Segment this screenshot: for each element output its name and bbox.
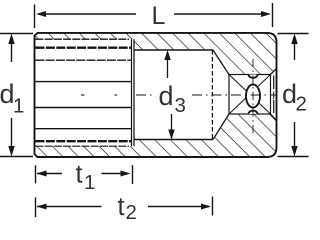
svg-text:t: t	[118, 193, 125, 221]
hex end double wall line	[131, 39, 133, 146]
body outline	[35, 33, 277, 157]
axis centerline	[81, 94, 85, 96]
d1 down arrow	[11, 118, 13, 148]
t2 left arrowhead	[37, 204, 47, 210]
square diagonal 2	[229, 75, 271, 115]
d2 down arrow	[294, 122, 296, 148]
chamfer ring edge lower	[273, 100, 275, 113]
square drive recess outline	[229, 75, 271, 115]
svg-text:3: 3	[175, 94, 186, 117]
pin hole top arc	[249, 75, 258, 78]
d1 up arrow	[11, 42, 13, 62]
svg-text:1: 1	[13, 95, 24, 118]
d2 top extension line	[278, 33, 309, 35]
vertical centerline through pin hole	[252, 59, 254, 133]
t2 dimension line	[37, 206, 102, 208]
hex bore bottom line (stippled)	[36, 145, 130, 147]
L left extension bar	[34, 5, 36, 29]
svg-text:t: t	[76, 161, 83, 189]
knurl stipple line heavy bottom	[36, 140, 132, 142]
knurl stipple line top	[36, 59, 132, 61]
svg-text:2: 2	[296, 93, 307, 116]
chamfer ring centerline dash	[273, 92, 275, 100]
hex facet line	[36, 81, 132, 83]
chamfer ring edge upper	[273, 76, 275, 90]
knurl stipple line heavy top	[36, 47, 132, 49]
svg-text:d: d	[159, 81, 174, 111]
cone transition bottom	[213, 114, 229, 140]
dimension L line	[46, 13, 136, 15]
right face chamfer diag bottom	[271, 114, 277, 121]
d2 up arrow	[294, 42, 296, 60]
L right arrowhead	[261, 11, 271, 17]
hatched top wall section	[36, 33, 277, 75]
cone transition top	[213, 50, 229, 75]
hex facet line	[36, 128, 132, 130]
L left arrowhead	[36, 11, 46, 17]
t1 right arrowhead	[121, 171, 131, 177]
d2 bottom extension line	[278, 156, 309, 158]
d1 top extension line	[0, 33, 33, 35]
svg-text:1: 1	[84, 171, 95, 194]
cavity d3 bottom edge	[134, 139, 213, 141]
t1 left extension bar	[35, 165, 37, 183]
t2 right extension bar	[212, 197, 214, 216]
hatched bottom wall section	[36, 114, 277, 157]
pin hole bottom arc	[249, 111, 258, 114]
pin hole ellipse	[246, 85, 260, 108]
svg-text:2: 2	[126, 201, 137, 224]
t2 right arrowhead	[201, 204, 211, 210]
d3 down arrow	[171, 114, 173, 138]
d1 bottom extension line	[0, 156, 33, 158]
t1 right extension bar	[132, 165, 134, 184]
t1 dimension line	[37, 173, 62, 175]
cavity d3 top edge	[134, 49, 213, 51]
t2 left extension bar	[35, 197, 37, 217]
t1 left arrowhead	[37, 171, 47, 177]
right face chamfer diag top	[271, 69, 277, 75]
d3 up arrow	[167, 52, 169, 78]
L right extension bar	[272, 3, 274, 27]
hex bore line (hatch band bottom, stippled)	[36, 38, 130, 40]
cavity end hidden line	[211, 50, 213, 140]
square diagonal 1	[229, 75, 271, 115]
svg-text:L: L	[152, 2, 166, 30]
hex facet line	[36, 107, 132, 109]
